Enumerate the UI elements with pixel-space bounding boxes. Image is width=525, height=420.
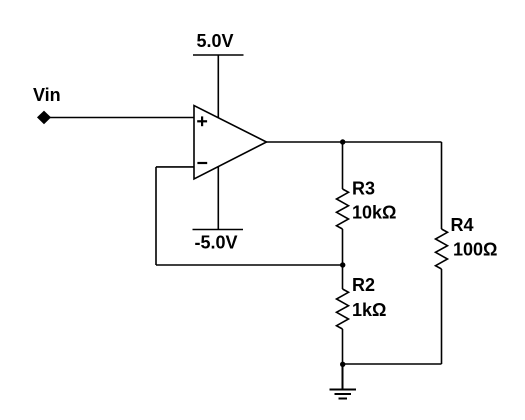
wire feedback node to R2: [342, 265, 344, 289]
wire Vin to op-amp + input: [49, 117, 194, 119]
power -5V supply bar: [193, 229, 244, 231]
wire feedback to node: [156, 264, 343, 266]
wire output node to R3: [342, 142, 344, 189]
wire R4 branch bottom: [441, 269, 443, 364]
op-amp + input pin marker: [197, 116, 207, 126]
svg-text:10kΩ: 10kΩ: [352, 203, 396, 223]
ground: [330, 364, 357, 399]
resistor R3: [337, 189, 349, 229]
junction node feedback: [340, 262, 345, 267]
junction node output: [340, 139, 345, 144]
svg-text:R4: R4: [451, 215, 474, 235]
op-amp U1: [194, 106, 267, 180]
wire +5V supply to op-amp: [217, 55, 219, 118]
svg-text:-5.0V: -5.0V: [195, 233, 238, 253]
wire R4 branch top: [441, 142, 443, 229]
resistor R4: [436, 229, 448, 269]
junction node ground: [340, 362, 345, 367]
node Vin input terminal: [38, 111, 51, 123]
svg-text:100Ω: 100Ω: [453, 240, 497, 260]
wire bottom return: [343, 363, 442, 365]
svg-text:1kΩ: 1kΩ: [352, 300, 386, 320]
wire op-amp to -5V supply: [217, 167, 219, 230]
wire op-amp minus input: [156, 166, 194, 168]
svg-text:R2: R2: [352, 275, 375, 295]
wire feedback vertical: [155, 167, 157, 265]
resistor R2: [337, 289, 349, 329]
wire R2 to ground node: [342, 329, 344, 364]
wire op-amp output to R4 branch: [267, 141, 442, 143]
wire R3 to feedback node: [342, 229, 344, 265]
svg-text:5.0V: 5.0V: [197, 31, 234, 51]
power +5V supply bar: [193, 54, 244, 56]
op-amp - input pin marker: [197, 162, 207, 164]
svg-text:R3: R3: [352, 179, 375, 199]
svg-text:Vin: Vin: [33, 85, 61, 105]
